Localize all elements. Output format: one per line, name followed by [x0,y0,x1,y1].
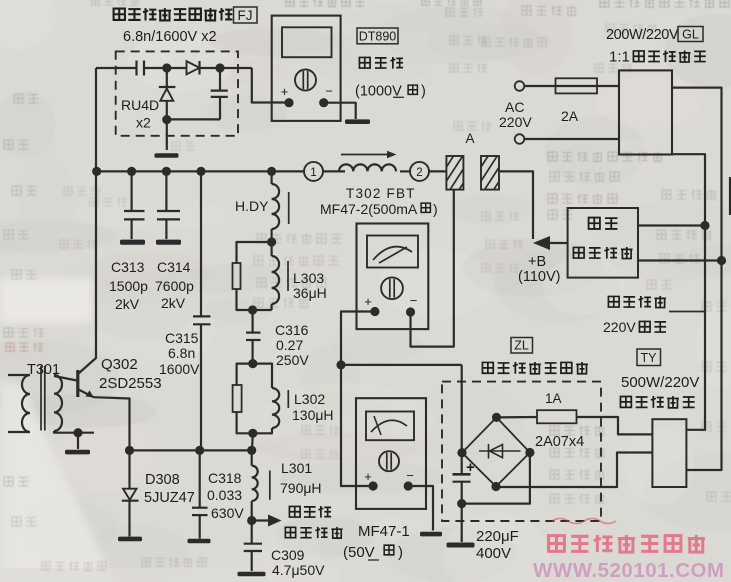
wire [400,170,410,172]
ground (C313) [120,240,145,245]
wire: MF47-1 - to ground [408,486,433,531]
label box ZL [511,338,533,354]
wire bridge minus to cap bottom [462,453,530,504]
svg-text:FJ: FJ [238,8,253,23]
node [267,237,276,246]
label box DT890 [357,28,398,44]
svg-text:−: − [406,468,414,483]
capacitor C316 [252,310,254,332]
svg-text:): ) [421,84,426,100]
wire H.DY top [271,171,273,184]
transistor Q302 base bar [76,370,79,397]
node [700,221,709,230]
autotransformer box [652,419,686,487]
capacitor C318 [199,450,201,507]
MF47-2 display [367,236,418,268]
svg-text:T301: T301 [27,362,60,378]
svg-text:): ) [398,544,403,561]
node [215,63,224,72]
wire fuse out to autotransformer (upper left) [577,417,653,434]
wire: main B+ bus [96,170,304,172]
svg-text:0.27: 0.27 [276,337,303,353]
inductor H.DY [272,184,280,229]
ground (DT890) [345,119,370,124]
svg-text:1A: 1A [545,391,562,406]
node [196,167,205,176]
svg-text:1: 1 [310,167,316,179]
ground (MF47-1) [420,532,442,537]
node [162,63,171,72]
transformer GL box [619,70,672,154]
capacitor (shunt) in detector [219,68,221,90]
damping resistor (L302) [237,364,253,385]
wire: damper rail y=450 [130,449,252,451]
svg-text:2SD2553: 2SD2553 [99,375,162,392]
watermark 家电维修资料网 [549,536,565,552]
node [336,360,345,369]
node [92,167,101,176]
capacitor C309 [244,543,262,545]
svg-text:220V: 220V [603,319,636,335]
wire secondary bottom to inner rail [672,154,705,430]
svg-text:200W/220V: 200W/220V [606,27,679,43]
diode (series, points right) [187,61,200,74]
svg-text:2: 2 [416,167,422,179]
label 已隔离的 220V电源 [608,296,619,307]
svg-text:(50V: (50V [343,544,375,561]
label 数字表 [359,57,370,68]
AC terminal top [515,81,525,91]
svg-text:L301: L301 [281,460,312,476]
svg-text:T302 FBT: T302 FBT [346,186,416,201]
wire down to DT890 + [252,68,289,103]
svg-text:A: A [465,131,474,146]
svg-text:1600V: 1600V [159,361,200,377]
fuse 1A [497,416,538,419]
svg-text:220V: 220V [499,114,532,130]
label box FJ [234,7,258,23]
label box TY [637,349,661,366]
svg-text:2kV: 2kV [115,296,140,312]
capacitor C314 [165,171,167,211]
inductor L301 [251,450,253,465]
svg-text:220μF: 220μF [476,528,519,545]
wire [323,170,345,172]
wire [524,138,619,140]
svg-text:130μH: 130μH [292,407,334,423]
wire: emitter to D308 rail [94,397,130,450]
wire from RU4D node to shunt cap [167,118,220,120]
inductor L302 [253,364,272,388]
svg-text:7600p: 7600p [155,278,194,294]
damping resistor (H.DY) [237,242,272,263]
ground (cap) [447,543,475,548]
transformer T301 primary [8,374,30,376]
capacitor C313 [131,171,133,211]
svg-text:ZL: ZL [514,339,529,353]
node [125,446,134,455]
meter MF47-1 body [356,398,426,509]
wire [271,229,273,256]
svg-text:790μH: 790μH [280,480,322,496]
node circle 1 [304,162,323,181]
svg-text:): ) [433,201,438,217]
node [717,256,726,265]
meter MF47-2 body [357,224,429,330]
svg-text:TY: TY [641,351,658,365]
wire + fuse 2A [524,85,619,87]
svg-text:630V: 630V [211,505,244,521]
diode RU4D (shunt, cathode up) [166,68,168,89]
svg-text:6.8n: 6.8n [168,345,195,361]
MF47-1 knob [379,451,399,471]
wire SMPS to rail 2 [638,259,722,261]
wire: junction to rectifier + [341,364,462,366]
bridge rectifier diamond 2A07x4 [462,417,530,486]
wire secondary bottom to ground [54,431,94,433]
AC terminal bottom [515,134,525,144]
wire from right half to B+ feed [499,171,533,239]
svg-text:AC: AC [505,99,524,115]
ground (C309) [238,572,266,577]
svg-text:Q302: Q302 [101,356,138,373]
ground (peak detector) [155,153,179,158]
svg-text:C315: C315 [165,330,199,346]
svg-text:GL: GL [682,28,699,42]
wire secondary top to right rail [672,88,722,470]
inductor L303 [272,256,280,304]
svg-text:500W/220V: 500W/220V [621,374,699,391]
svg-text:1500p: 1500p [109,278,148,294]
svg-text:+B: +B [528,254,546,270]
label box GL [678,27,703,42]
svg-text:D308: D308 [145,472,180,488]
MF47-1 display [366,412,414,441]
svg-text:6.8n/1600V x2: 6.8n/1600V x2 [123,29,217,45]
diode D308 (damper, cathode down) [128,450,130,488]
svg-text:(110V): (110V) [518,269,560,285]
ground (T301) [65,450,90,455]
page-edge artifact line [729,177,731,215]
DT890 knob [295,70,316,91]
svg-text:2A: 2A [561,108,579,124]
Q302 emitter with arrow [79,390,94,398]
svg-text:0.033: 0.033 [207,487,242,503]
svg-text:+: + [466,459,475,476]
wire [429,170,447,172]
transformer T301 secondary [54,375,62,431]
svg-text:2A07x4: 2A07x4 [535,434,584,450]
svg-text:C314: C314 [157,259,191,275]
svg-text:4.7μ50V: 4.7μ50V [272,562,325,578]
svg-text:DT890: DT890 [359,30,397,44]
node [267,167,276,176]
svg-text:MF47-2(500mA: MF47-2(500mA [320,201,418,217]
ground (D308) [118,537,142,542]
pointer line (isolated 220V source) [669,311,705,313]
svg-text:250V: 250V [276,352,309,368]
wire [144,67,187,69]
wire: DT890 - to ground [324,103,356,119]
node [248,359,257,368]
svg-text:C309: C309 [271,547,305,563]
capacitor C315 [200,171,202,316]
node [247,446,256,455]
svg-text:RU4D: RU4D [121,97,159,113]
svg-text:L303: L303 [293,270,324,286]
label: title 自制峰峰值检波器 [114,9,125,20]
node [457,499,466,508]
MF47-2 knob [381,277,403,299]
wire: top input from left vertical to series cap [96,67,136,69]
capacitor 220uF 400V (electrolytic) [461,365,463,474]
current direction arrow [341,154,389,156]
wire [251,433,254,450]
capacitor (series) 6.8n [135,61,137,76]
node [195,446,204,455]
svg-text:WWW.520101.COM: WWW.520101.COM [533,559,725,582]
bridge inner diode [479,450,521,452]
inductor T302 FBT primary [339,164,396,171]
node (C316 tap) [248,305,257,314]
box 主板开关电源 [568,208,638,278]
T301 core [40,366,42,431]
red pen squiggle [552,519,616,524]
node circle 2 [410,162,429,181]
svg-text:MF47-1: MF47-1 [358,523,410,540]
meter DT890 body [272,16,341,121]
label 自耦调压器 [620,396,631,407]
dashed box FJ peak detector [116,51,238,135]
node [162,167,171,176]
svg-text:1:1: 1:1 [609,49,630,66]
svg-text:C313: C313 [111,259,145,275]
svg-text:C318: C318 [208,470,242,486]
node [127,167,136,176]
node [248,429,257,438]
svg-text:+: + [281,84,289,99]
wire to node 2 [200,67,252,69]
svg-text:+: + [364,469,372,484]
svg-text:5JUZ47: 5JUZ47 [144,490,195,506]
svg-text:L302: L302 [294,391,325,407]
dashed box ZL [442,382,601,521]
svg-text:+: + [364,294,372,309]
svg-text:H.DY: H.DY [235,198,269,214]
label 自制全波整流器 [482,362,493,373]
wire: MF47-2 + down to junction [341,312,375,487]
Q302 collector [79,358,97,374]
ground (C314) [156,240,181,245]
svg-text:−: − [410,293,418,308]
arrow +B feed [549,242,568,244]
node [162,115,171,124]
wire: MF47-2 - up to connector A [411,190,454,347]
node + arrow 去东西枕校电路 [247,516,256,525]
svg-text:36μH: 36μH [293,285,327,301]
svg-text:C316: C316 [275,322,309,338]
node [73,428,82,437]
DT890 display [282,27,332,57]
svg-text:2kV: 2kV [161,295,186,311]
wire: left vertical (detector input / Q302 collector) [95,68,97,358]
svg-text:400V: 400V [476,545,511,562]
svg-text:−: − [325,84,333,99]
ground (C318) [188,539,211,544]
bridge nodes [492,413,501,422]
wire SMPS to rail 1 [638,224,705,226]
svg-text:x2: x2 [136,115,151,131]
wire bridge AC2 to autotransformer (lower left) [496,453,652,488]
